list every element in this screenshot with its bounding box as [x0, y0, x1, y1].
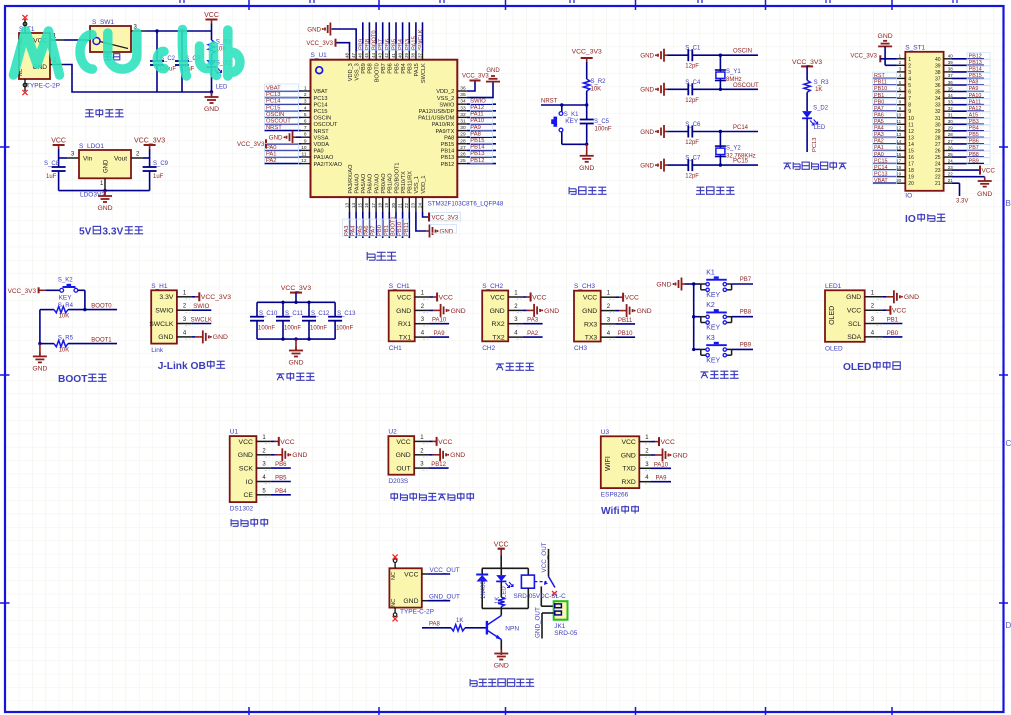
svg-text:40: 40 [948, 54, 953, 59]
svg-text:SWCLK: SWCLK [149, 321, 174, 328]
svg-text:S_Y2: S_Y2 [726, 145, 741, 151]
svg-text:PA4: PA4 [874, 126, 884, 132]
svg-text:LED1: LED1 [825, 283, 842, 290]
svg-text:VSS_2: VSS_2 [437, 96, 454, 102]
svg-text:GND_OUT: GND_OUT [535, 607, 542, 638]
svg-text:100nF: 100nF [284, 326, 301, 332]
svg-text:PA0: PA0 [874, 152, 884, 158]
svg-text:PB6: PB6 [275, 462, 287, 468]
svg-text:28: 28 [460, 138, 466, 144]
svg-text:K3: K3 [706, 335, 715, 342]
svg-text:S_C9: S_C9 [153, 161, 169, 167]
svg-text:18: 18 [896, 165, 901, 170]
svg-text:GND: GND [490, 308, 505, 315]
svg-text:26: 26 [935, 149, 941, 155]
svg-text:19: 19 [384, 203, 389, 209]
svg-text:PC14: PC14 [733, 125, 749, 131]
svg-text:SWIO: SWIO [193, 304, 209, 310]
svg-text:31: 31 [460, 119, 466, 125]
svg-text:14: 14 [351, 203, 356, 209]
svg-text:PC15: PC15 [314, 109, 328, 115]
svg-text:43: 43 [378, 52, 383, 58]
svg-text:VCC_3V3: VCC_3V3 [8, 288, 37, 295]
svg-text:31: 31 [935, 116, 941, 122]
svg-text:VCC_3V3: VCC_3V3 [432, 216, 459, 222]
svg-text:TX1: TX1 [399, 334, 412, 341]
svg-text:1uF: 1uF [46, 174, 57, 180]
svg-text:8: 8 [304, 132, 307, 138]
svg-text:PB13: PB13 [441, 155, 455, 161]
svg-text:S_R5: S_R5 [58, 335, 74, 341]
svg-text:LDO3V3: LDO3V3 [80, 192, 105, 199]
svg-text:VCC_3V3: VCC_3V3 [850, 54, 877, 60]
svg-text:12pF: 12pF [685, 140, 699, 146]
svg-text:VCC: VCC [404, 571, 418, 578]
svg-text:VCC: VCC [51, 138, 66, 145]
svg-text:GND: GND [640, 163, 654, 170]
svg-text:10K: 10K [59, 348, 70, 354]
svg-text:GND: GND [450, 452, 465, 459]
svg-text:PC14: PC14 [874, 165, 888, 171]
svg-text:PB3: PB3 [969, 119, 979, 125]
svg-text:GND: GND [396, 452, 411, 459]
svg-text:GND: GND [637, 308, 652, 315]
svg-text:1: 1 [304, 86, 307, 92]
svg-text:VCC_3V3: VCC_3V3 [306, 41, 333, 47]
svg-text:PC15: PC15 [733, 159, 749, 165]
svg-text:OLED: OLED [825, 345, 843, 352]
svg-text:S_C10: S_C10 [259, 311, 278, 317]
svg-text:TXD: TXD [622, 466, 636, 473]
svg-text:D203S: D203S [388, 478, 409, 485]
svg-text:GND: GND [32, 365, 47, 372]
svg-text:100nF: 100nF [310, 326, 327, 332]
svg-text:1K: 1K [815, 87, 822, 93]
svg-text:GND_OUT: GND_OUT [429, 594, 460, 601]
svg-text:GND: GND [494, 663, 509, 670]
svg-text:22: 22 [935, 175, 941, 181]
svg-text:GND: GND [403, 598, 418, 605]
svg-text:PA3: PA3 [527, 318, 539, 324]
svg-text:30: 30 [948, 119, 953, 124]
svg-text:S_C1: S_C1 [685, 46, 701, 52]
svg-text:RXD: RXD [621, 479, 635, 486]
svg-text:PA6/AO: PA6/AO [368, 173, 374, 193]
svg-text:SWCLK: SWCLK [421, 63, 427, 83]
svg-text:PB5: PB5 [969, 132, 979, 138]
svg-text:VCC_3V3: VCC_3V3 [281, 285, 311, 292]
svg-text:19: 19 [896, 172, 901, 177]
svg-text:PA10: PA10 [654, 462, 669, 468]
svg-text:2: 2 [908, 63, 911, 69]
svg-text:SCK: SCK [239, 466, 253, 473]
svg-text:PB1: PB1 [874, 93, 884, 99]
svg-text:SWIO: SWIO [439, 102, 455, 108]
svg-text:RX3: RX3 [584, 321, 597, 328]
svg-text:PB7: PB7 [969, 145, 979, 151]
svg-text:PA7: PA7 [874, 106, 884, 112]
svg-text:GND: GND [544, 308, 559, 315]
svg-text:PB1/AO: PB1/AO [388, 173, 394, 194]
svg-text:KEY: KEY [706, 357, 720, 364]
svg-text:WIFI: WIFI [605, 456, 612, 471]
svg-text:CH1: CH1 [389, 345, 402, 352]
svg-text:26: 26 [460, 152, 466, 158]
svg-text:GND: GND [288, 360, 303, 367]
svg-text:34: 34 [948, 93, 953, 98]
svg-text:15: 15 [896, 145, 901, 150]
svg-text:12pF: 12pF [685, 98, 699, 104]
svg-text:D: D [1006, 621, 1011, 630]
svg-text:VCC: VCC [621, 439, 635, 446]
svg-text:NRST: NRST [314, 129, 330, 135]
svg-text:SWIO: SWIO [155, 308, 173, 315]
svg-text:PA5: PA5 [874, 119, 884, 125]
svg-text:10K: 10K [59, 314, 70, 320]
svg-text:PA11: PA11 [969, 99, 981, 105]
svg-text:CH2: CH2 [482, 345, 495, 352]
svg-text:S_C7: S_C7 [685, 156, 701, 162]
svg-text:PA2: PA2 [527, 331, 539, 337]
svg-text:PB11: PB11 [618, 318, 633, 324]
svg-text:32: 32 [935, 109, 941, 115]
svg-text:12pF: 12pF [685, 64, 699, 70]
svg-text:JK1: JK1 [554, 623, 566, 630]
svg-text:PB5: PB5 [394, 63, 400, 74]
svg-text:27: 27 [948, 139, 953, 144]
svg-text:PB4: PB4 [401, 63, 407, 74]
svg-text:18: 18 [908, 168, 914, 174]
svg-text:KEY: KEY [706, 292, 720, 299]
svg-text:GND: GND [977, 191, 992, 198]
svg-text:4: 4 [908, 76, 911, 82]
svg-text:20: 20 [896, 178, 901, 183]
svg-text:17: 17 [371, 203, 376, 209]
svg-text:VCC: VCC [490, 294, 504, 301]
svg-text:VCC: VCC [239, 439, 253, 446]
svg-text:PB8: PB8 [368, 63, 374, 74]
svg-text:12: 12 [896, 126, 901, 131]
svg-text:PC13: PC13 [874, 171, 888, 177]
svg-text:S_C12: S_C12 [311, 311, 330, 317]
svg-text:23: 23 [948, 165, 953, 170]
svg-text:S_C4: S_C4 [685, 80, 701, 86]
svg-text:PB15: PB15 [969, 73, 982, 79]
svg-text:9: 9 [304, 138, 307, 144]
svg-text:41: 41 [391, 52, 396, 58]
svg-text:VCC: VCC [494, 541, 509, 548]
svg-text:PA10: PA10 [432, 318, 447, 324]
svg-text:36: 36 [460, 86, 466, 92]
svg-text:PA10/RX: PA10/RX [432, 122, 455, 128]
svg-text:S_U1: S_U1 [311, 52, 328, 59]
svg-text:GND: GND [440, 228, 454, 235]
svg-text:35: 35 [935, 90, 941, 96]
svg-text:9: 9 [908, 109, 911, 115]
svg-text:11: 11 [908, 122, 913, 128]
svg-text:33: 33 [935, 103, 941, 109]
svg-text:GND: GND [451, 308, 466, 315]
svg-text:PB0: PB0 [874, 99, 884, 105]
svg-text:GND: GND [307, 27, 321, 34]
svg-text:25: 25 [948, 152, 953, 157]
svg-text:47: 47 [351, 52, 356, 58]
svg-text:VCC_OUT: VCC_OUT [430, 567, 460, 574]
svg-text:21: 21 [935, 181, 941, 187]
svg-text:PB11/RX: PB11/RX [408, 171, 414, 194]
svg-text:1N4007: 1N4007 [481, 577, 487, 599]
svg-text:29: 29 [948, 126, 953, 131]
svg-text:23: 23 [935, 168, 941, 174]
svg-text:35: 35 [948, 86, 953, 91]
svg-text:37: 37 [935, 76, 941, 82]
svg-text:3: 3 [304, 99, 307, 105]
svg-text:PB3: PB3 [408, 63, 414, 74]
svg-text:5: 5 [908, 83, 911, 89]
svg-text:32: 32 [460, 112, 466, 118]
svg-text:PC14: PC14 [314, 102, 328, 108]
svg-text:10: 10 [896, 113, 901, 118]
svg-text:S_CH2: S_CH2 [482, 283, 503, 290]
svg-text:PA12: PA12 [969, 106, 982, 112]
svg-text:38: 38 [935, 70, 941, 76]
svg-text:GND: GND [292, 452, 307, 459]
svg-text:PB7: PB7 [740, 277, 752, 283]
svg-text:17: 17 [908, 162, 914, 168]
svg-text:11: 11 [897, 119, 902, 124]
svg-text:PA5/AO: PA5/AO [361, 173, 367, 193]
svg-text:PA12/USB/DP: PA12/USB/DP [419, 109, 455, 115]
svg-text:NRST: NRST [266, 125, 282, 131]
svg-text:PC15: PC15 [874, 158, 888, 164]
svg-text:NC: NC [391, 599, 397, 607]
svg-text:VCC: VCC [892, 308, 906, 315]
svg-text:GND: GND [204, 106, 219, 113]
svg-text:PB8: PB8 [740, 310, 752, 316]
svg-text:VBAT: VBAT [314, 89, 329, 95]
svg-text:OSCOUT: OSCOUT [314, 122, 339, 128]
svg-text:GND: GND [904, 294, 919, 301]
svg-text:GND: GND [878, 33, 893, 40]
svg-text:SRD-05VDC-SL-C: SRD-05VDC-SL-C [514, 593, 567, 600]
svg-text:VCC: VCC [847, 308, 861, 315]
svg-text:16: 16 [896, 152, 901, 157]
svg-text:VCC_3V3: VCC_3V3 [237, 141, 265, 148]
svg-text:11: 11 [302, 152, 307, 158]
svg-text:SWCLK: SWCLK [418, 29, 424, 50]
svg-text:S_C13: S_C13 [337, 311, 356, 317]
svg-text:33: 33 [460, 105, 466, 111]
svg-text:GND: GND [640, 87, 654, 94]
svg-text:PB13: PB13 [969, 60, 982, 66]
svg-text:GND: GND [104, 159, 110, 173]
svg-text:PC13: PC13 [314, 96, 328, 102]
svg-text:PB12: PB12 [969, 54, 982, 60]
svg-text:PB14: PB14 [441, 149, 455, 155]
svg-text:GND: GND [486, 68, 500, 74]
svg-text:TYPE-C-2P: TYPE-C-2P [400, 609, 434, 616]
svg-text:OSCIN: OSCIN [733, 49, 752, 55]
svg-text:46: 46 [358, 52, 363, 58]
svg-text:PA8: PA8 [444, 135, 454, 141]
svg-text:VSSA: VSSA [314, 135, 329, 141]
svg-text:PB9: PB9 [361, 63, 367, 74]
svg-text:PB6: PB6 [388, 63, 394, 74]
svg-text:100nF: 100nF [336, 326, 353, 332]
svg-text:GND: GND [673, 452, 688, 459]
svg-text:PB9: PB9 [740, 342, 752, 348]
svg-text:PB10: PB10 [618, 331, 633, 337]
svg-text:PA2: PA2 [874, 139, 884, 145]
svg-text:100nF: 100nF [595, 127, 612, 133]
svg-text:LED: LED [814, 125, 826, 131]
svg-text:S_R4: S_R4 [58, 303, 74, 309]
svg-text:5V: 5V [79, 227, 92, 238]
svg-text:4: 4 [304, 105, 307, 111]
svg-text:12pF: 12pF [685, 174, 699, 180]
svg-text:10K: 10K [591, 87, 602, 93]
svg-text:34: 34 [460, 99, 466, 105]
svg-text:BOOT0: BOOT0 [91, 303, 112, 309]
svg-text:LED: LED [216, 85, 228, 91]
svg-text:OSCOUT: OSCOUT [733, 83, 759, 89]
svg-text:2: 2 [304, 92, 307, 98]
svg-text:ESP8266: ESP8266 [601, 492, 629, 499]
svg-text:STM32F103C8T6_LQFP48: STM32F103C8T6_LQFP48 [428, 201, 504, 208]
svg-text:VDD_1: VDD_1 [421, 176, 427, 194]
svg-text:PA3: PA3 [874, 132, 884, 138]
svg-text:35: 35 [460, 92, 466, 98]
svg-text:PA3/RX/AO: PA3/RX/AO [348, 164, 354, 194]
svg-text:S_R3: S_R3 [814, 80, 830, 86]
svg-text:SDA: SDA [847, 334, 861, 341]
svg-text:PA9: PA9 [434, 331, 446, 337]
svg-text:CH3: CH3 [574, 345, 587, 352]
svg-text:13: 13 [896, 132, 901, 137]
svg-text:GND: GND [656, 281, 671, 288]
svg-text:14: 14 [896, 139, 901, 144]
svg-text:A15: A15 [969, 113, 979, 119]
svg-text:31: 31 [948, 113, 953, 118]
svg-text:GND: GND [396, 308, 411, 315]
svg-text:C: C [1006, 439, 1011, 448]
svg-text:VCC: VCC [532, 294, 546, 301]
svg-text:24: 24 [935, 162, 941, 168]
svg-text:OUT: OUT [396, 466, 410, 473]
svg-text:21: 21 [948, 178, 953, 183]
svg-text:PA15: PA15 [414, 63, 420, 76]
svg-text:S_H1: S_H1 [151, 283, 168, 290]
svg-text:32: 32 [948, 106, 953, 111]
svg-text:K2: K2 [706, 302, 715, 309]
svg-text:GND: GND [238, 452, 253, 459]
svg-text:13: 13 [344, 203, 349, 209]
svg-text:PB0/AO: PB0/AO [381, 173, 387, 194]
svg-text:PB9: PB9 [969, 158, 979, 164]
svg-text:10: 10 [301, 145, 307, 151]
svg-text:VCC: VCC [661, 439, 675, 446]
svg-text:NRST: NRST [541, 99, 558, 105]
svg-text:SCL: SCL [848, 321, 861, 328]
svg-text:U2: U2 [388, 429, 397, 436]
svg-text:LED: LED [502, 586, 508, 598]
svg-text:J-Link OB: J-Link OB [158, 361, 206, 372]
svg-text:Vin: Vin [83, 156, 93, 163]
svg-text:GND: GND [640, 129, 654, 136]
svg-text:Vout: Vout [114, 156, 127, 163]
svg-text:PB10/TX: PB10/TX [401, 171, 407, 194]
svg-text:S_LDO1: S_LDO1 [79, 143, 104, 150]
svg-text:40: 40 [935, 57, 941, 63]
svg-text:S_D2: S_D2 [813, 106, 829, 112]
svg-text:PB11: PB11 [404, 222, 410, 236]
svg-text:22: 22 [948, 172, 953, 177]
svg-text:37: 37 [948, 73, 953, 78]
svg-text:VCC_3V3: VCC_3V3 [201, 294, 231, 301]
svg-text:VBAT: VBAT [874, 178, 888, 184]
svg-text:GND: GND [579, 165, 594, 172]
svg-text:16: 16 [908, 155, 914, 161]
svg-text:37: 37 [417, 52, 422, 58]
svg-text:17: 17 [896, 158, 901, 163]
svg-text:38: 38 [948, 67, 953, 72]
svg-text:VCC: VCC [204, 12, 219, 19]
svg-text:25: 25 [935, 155, 941, 161]
svg-text:15: 15 [358, 203, 363, 209]
svg-text:BOOT1: BOOT1 [91, 337, 112, 343]
svg-text:5: 5 [304, 112, 307, 118]
svg-text:27: 27 [460, 145, 466, 151]
svg-text:PB2/BOOT1: PB2/BOOT1 [394, 163, 400, 194]
svg-text:VCC_OUT: VCC_OUT [541, 542, 548, 572]
svg-text:S_C5: S_C5 [594, 119, 610, 125]
svg-text:DS1302: DS1302 [230, 506, 254, 513]
svg-text:25: 25 [460, 158, 466, 164]
svg-text:6: 6 [908, 90, 911, 96]
svg-text:Wifi: Wifi [601, 506, 620, 517]
svg-text:39: 39 [935, 63, 941, 69]
svg-text:GND: GND [640, 53, 654, 60]
svg-text:IO: IO [905, 192, 912, 199]
svg-text:S_Y1: S_Y1 [726, 69, 741, 75]
svg-text:OLED: OLED [843, 362, 871, 373]
svg-text:VCC: VCC [982, 168, 996, 175]
svg-text:GND: GND [213, 334, 228, 341]
svg-text:OLED: OLED [829, 306, 836, 325]
svg-text:19: 19 [908, 175, 914, 181]
svg-text:22: 22 [404, 203, 409, 209]
svg-text:RX2: RX2 [491, 321, 504, 328]
svg-text:BOOT: BOOT [58, 374, 88, 385]
svg-text:TYPE-C-2P: TYPE-C-2P [26, 83, 60, 90]
svg-text:PA9: PA9 [969, 86, 979, 92]
svg-text:PA9/TX: PA9/TX [435, 129, 454, 135]
svg-text:14: 14 [908, 142, 914, 148]
svg-text:1K: 1K [456, 618, 463, 624]
svg-text:27: 27 [935, 142, 941, 148]
svg-text:VCC_3V3: VCC_3V3 [792, 59, 822, 66]
svg-text:13: 13 [908, 135, 914, 141]
svg-text:34: 34 [935, 96, 941, 102]
svg-text:GND: GND [621, 452, 636, 459]
svg-text:GND: GND [582, 308, 597, 315]
svg-text:VSS_1: VSS_1 [414, 176, 420, 193]
svg-text:PA11/USB/DM: PA11/USB/DM [418, 116, 455, 122]
svg-text:PC13: PC13 [812, 137, 818, 152]
svg-text:PA2/TX/AO: PA2/TX/AO [314, 162, 343, 168]
svg-text:3.3V: 3.3V [102, 227, 123, 238]
svg-text:KEY: KEY [706, 325, 720, 332]
